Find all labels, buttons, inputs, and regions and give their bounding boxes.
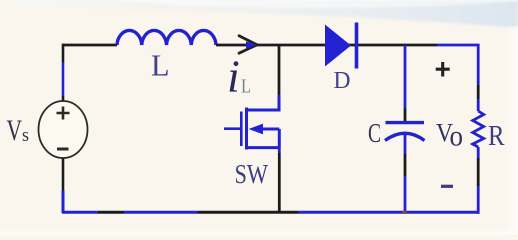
current arrow iL — [239, 36, 257, 54]
svg-text:L: L — [241, 76, 251, 98]
output minus — [441, 185, 453, 188]
source lead — [278, 148, 281, 153]
source polarity minus — [57, 148, 69, 151]
gate lead — [224, 127, 240, 130]
capacitor C branch — [404, 45, 407, 109]
resistor R branch — [477, 85, 480, 99]
inductor L coil — [117, 30, 216, 45]
node: capacitor/bottom-rail junction — [403, 211, 407, 214]
channel bar — [245, 108, 248, 150]
wire top blue: to right corner — [437, 45, 478, 85]
svg-text:R: R — [488, 120, 505, 152]
decorative top swoosh — [0, 0, 518, 28]
cap lower lead — [404, 134, 407, 155]
source side vertical — [247, 129, 280, 148]
resistor zigzag — [473, 111, 484, 147]
output plus — [436, 62, 450, 77]
svg-text:C: C — [368, 118, 381, 148]
voltage source Vs — [39, 101, 88, 158]
capacitor top plate — [386, 121, 425, 124]
bottom wire black seg3 — [198, 211, 299, 214]
wire top black: source corner to inductor — [63, 44, 117, 47]
source polarity plus — [57, 107, 70, 120]
svg-text:SW: SW — [235, 159, 269, 189]
bottom wire blue left corner — [63, 191, 98, 213]
svg-text:s: s — [22, 125, 29, 146]
bottom wire black seg1 — [98, 211, 124, 214]
capacitor bottom plate arc — [385, 133, 425, 140]
bottom edge fade — [0, 226, 518, 235]
svg-text:D: D — [334, 68, 351, 94]
drain lead wire — [278, 45, 281, 95]
left vertical wire — [62, 44, 65, 62]
svg-text:i: i — [227, 51, 240, 102]
right edge fade — [504, 26, 518, 235]
gate bar — [240, 112, 243, 147]
wire below source — [62, 158, 65, 191]
body stub with arrow — [260, 128, 279, 131]
bottom wire blue seg2 — [124, 211, 198, 214]
svg-text:o: o — [450, 120, 464, 153]
svg-text:V: V — [7, 114, 23, 147]
wire top black: inductor to diode — [216, 44, 437, 47]
bottom wire blue seg4 — [299, 211, 480, 214]
diode D — [325, 25, 351, 67]
svg-text:L: L — [151, 48, 170, 83]
